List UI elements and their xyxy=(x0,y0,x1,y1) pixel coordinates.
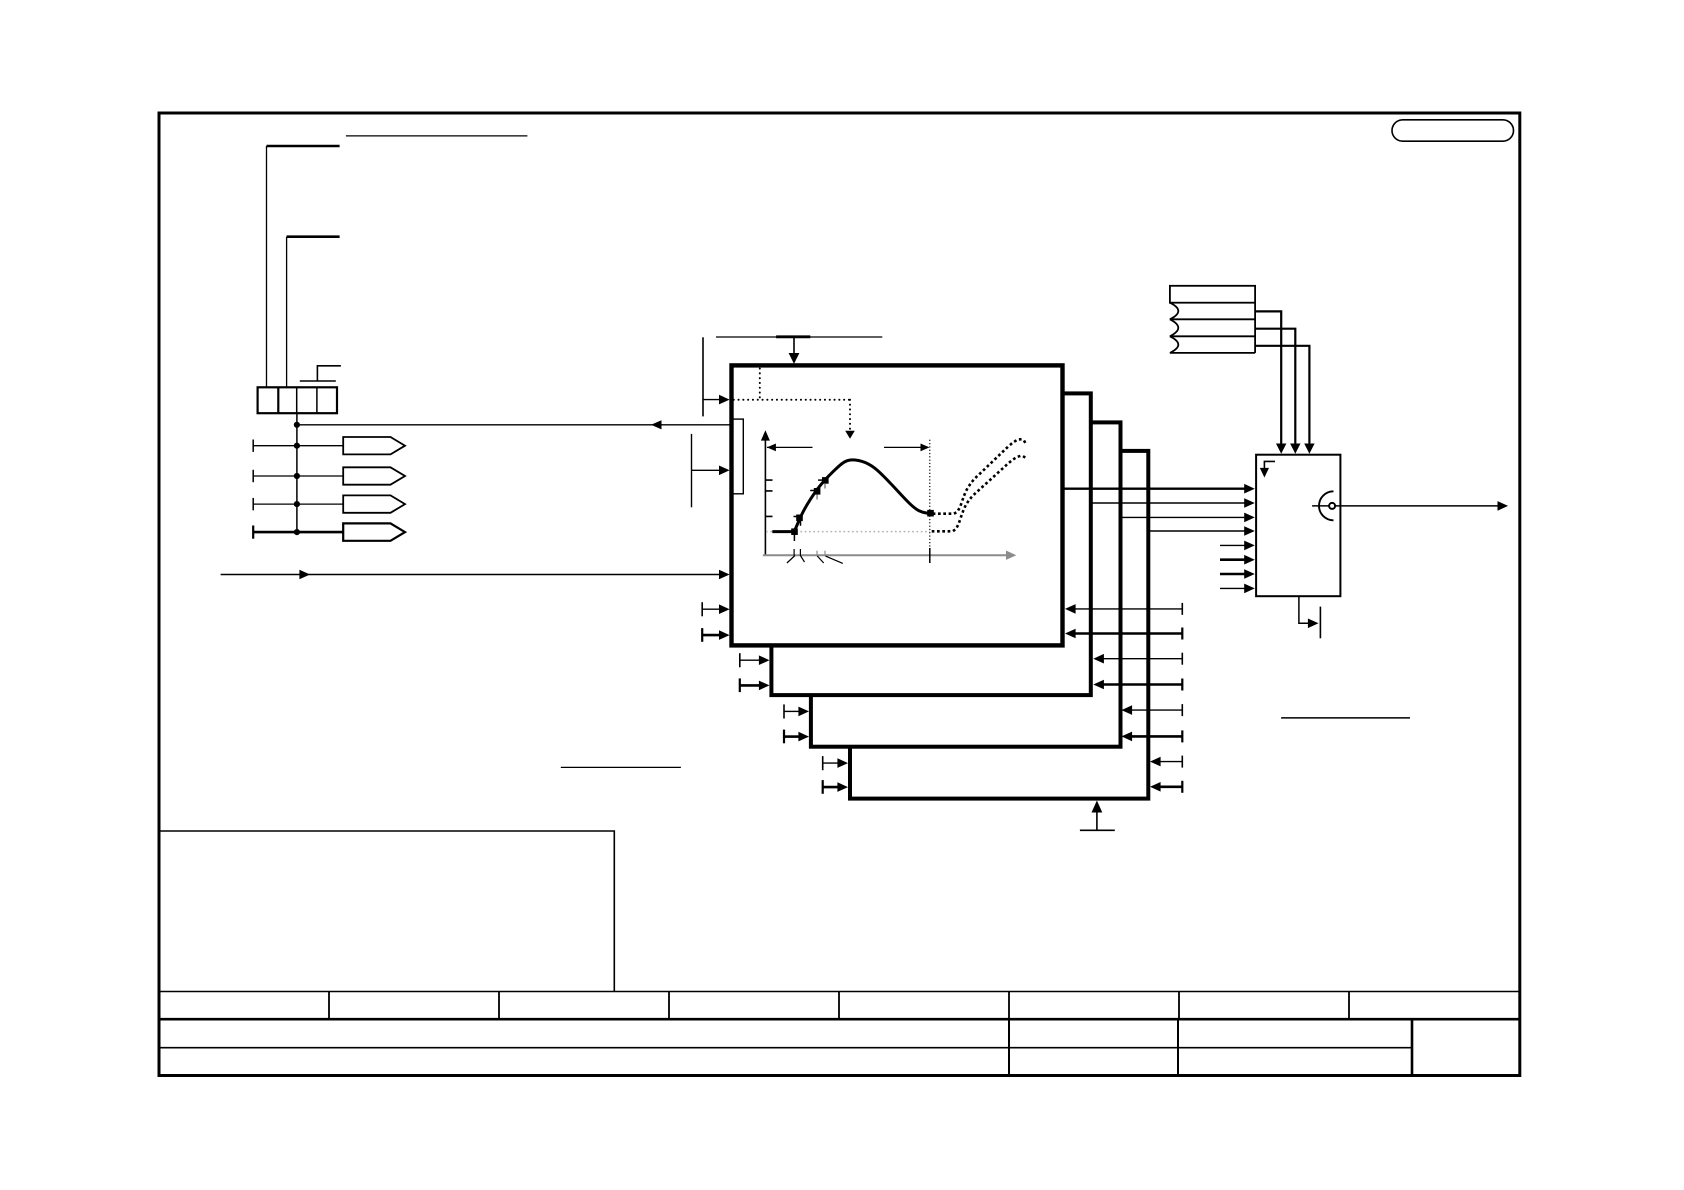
junction dots xyxy=(294,422,300,428)
sheet wire 3 xyxy=(1255,346,1309,446)
annotation underline right xyxy=(1281,717,1410,719)
right side wire to block4 b thick xyxy=(1159,785,1182,788)
dotted trigger arrow down xyxy=(849,400,851,431)
connector block xyxy=(258,387,337,413)
input stub 1 vertical xyxy=(702,337,704,416)
right side wire to block1 b thick xyxy=(1075,632,1182,635)
subsystem block 4 (back) xyxy=(850,451,1148,799)
block3 stub a xyxy=(784,710,800,712)
annotation underline xyxy=(346,135,528,137)
goto tag 2 xyxy=(343,467,405,484)
input arrow 2 xyxy=(692,469,721,471)
dimension arrow left xyxy=(767,446,813,448)
input stub 8 xyxy=(1220,587,1247,589)
response curve xyxy=(772,460,930,532)
right side wire to block2 b thick xyxy=(1103,683,1182,686)
right side wire to block4 a xyxy=(1159,761,1182,763)
ground arrow under block4 xyxy=(1080,829,1115,831)
right side wire to block3 b thick xyxy=(1131,735,1182,738)
goto tag 4 xyxy=(343,523,405,540)
junction trunk wire xyxy=(296,413,298,532)
wire 1 xyxy=(253,445,343,447)
sheet wire 2 xyxy=(1255,329,1295,446)
output wire 2 xyxy=(1091,502,1247,504)
dotted upper projection curve xyxy=(934,439,1025,513)
annotation underline mid-left xyxy=(561,766,681,768)
selector bottom wire xyxy=(1299,596,1310,623)
plot y-axis xyxy=(764,438,766,556)
goto tag 1 xyxy=(343,437,405,454)
wire 4 thick xyxy=(253,531,343,534)
dotted vertical marker line xyxy=(929,440,931,548)
block2 stub a xyxy=(740,659,760,661)
title lower dividers xyxy=(1009,1019,1178,1074)
output wire 1 thick xyxy=(1063,488,1248,490)
output wire 3 xyxy=(1121,516,1247,518)
right side wire to block2 a xyxy=(1103,658,1182,660)
title block thick line xyxy=(159,1018,1519,1021)
line above block xyxy=(716,336,882,338)
block4 stub a xyxy=(823,762,839,764)
block2 stub b thick xyxy=(740,684,760,687)
input stub 2 vertical xyxy=(691,434,693,507)
selector block xyxy=(1256,455,1340,597)
subsystem block 3 xyxy=(811,422,1121,746)
step flag icon xyxy=(317,366,341,381)
output port circle xyxy=(1329,503,1335,509)
subsystem block 2 xyxy=(771,393,1090,695)
outer border frame xyxy=(159,113,1520,1076)
title right box divider xyxy=(1411,1019,1414,1074)
dotted trigger path vertical from top xyxy=(759,369,761,400)
dimension arrow right xyxy=(884,446,928,448)
right side wire to block1 a xyxy=(1075,608,1182,610)
title pill top-right xyxy=(1392,120,1514,141)
dotted trigger path horizontal xyxy=(734,399,850,401)
y-axis ticks xyxy=(765,480,772,516)
goto tag 3 xyxy=(343,495,405,512)
title block row line xyxy=(159,1047,1412,1049)
x-axis hash group 1 xyxy=(793,549,795,556)
block3 stub b thick xyxy=(784,735,800,738)
marker ticks xyxy=(793,535,795,542)
output wire 4 xyxy=(1148,530,1247,532)
subsystem block 1 (front) xyxy=(732,365,1063,645)
long input wire xyxy=(221,574,720,576)
annotation leader 1 xyxy=(267,145,340,148)
right side wire to block3 a xyxy=(1131,709,1182,711)
clock arc symbol xyxy=(1319,491,1334,520)
terminator bar xyxy=(1319,607,1321,639)
plot x-axis grey xyxy=(763,554,1008,556)
wire 2 xyxy=(253,475,343,477)
arrow into block top xyxy=(793,337,795,354)
port bracket xyxy=(731,419,743,494)
curve markers xyxy=(791,528,798,535)
dotted lower projection curve xyxy=(933,456,1026,531)
input stub 3 xyxy=(702,608,720,610)
input stub 6 thick xyxy=(1220,558,1247,561)
enable icon xyxy=(1264,461,1275,469)
wire to subsystem (feedback) xyxy=(297,424,730,426)
title row1 dividers xyxy=(329,992,1349,1020)
input stub 7 thick xyxy=(1220,573,1247,576)
input arrow 1 xyxy=(703,399,720,401)
title block top line xyxy=(159,991,1519,993)
output wire xyxy=(1312,505,1500,507)
x-axis hash group 2 xyxy=(816,551,818,556)
data store sheets symbol xyxy=(1170,286,1255,303)
sheet wire 1 xyxy=(1255,311,1281,446)
annotation leader 2 xyxy=(287,235,340,238)
grey dotted baseline xyxy=(766,531,930,533)
notes box xyxy=(160,831,614,992)
input stub 4 thick xyxy=(702,634,720,637)
block4 stub b thick xyxy=(823,786,839,789)
input stub 5 xyxy=(1220,544,1247,546)
wire 3 xyxy=(253,503,343,505)
